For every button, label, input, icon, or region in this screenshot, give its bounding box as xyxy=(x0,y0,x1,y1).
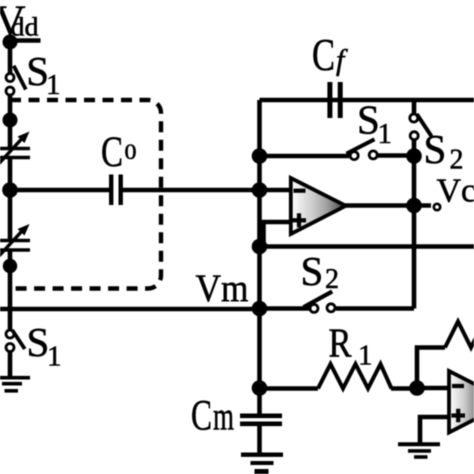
svg-text:2: 2 xyxy=(450,145,464,176)
wire Vm xyxy=(0,307,260,312)
resistor R2 (feedback) xyxy=(445,322,474,348)
label S2 (top-right) xyxy=(424,126,464,176)
wire Cf-left vertical xyxy=(257,100,262,156)
wire varcap1 to varcap2 xyxy=(8,159,13,239)
node dot (10,120) xyxy=(3,113,18,128)
label Cf xyxy=(312,30,348,80)
wire U2 minus input xyxy=(417,386,449,391)
node dot (417,388) xyxy=(409,380,425,396)
wire U1 plus input xyxy=(264,222,291,247)
svg-text:1: 1 xyxy=(47,341,62,373)
switch S2a xyxy=(410,114,432,140)
svg-text:2: 2 xyxy=(325,264,339,295)
label S2 (middle) xyxy=(301,248,340,295)
label R1 xyxy=(329,320,373,372)
capacitor Cm xyxy=(240,416,282,424)
variable capacitor (bottom) xyxy=(0,224,30,256)
variable capacitor (top) xyxy=(0,132,30,164)
wire S1a to node xyxy=(8,95,13,120)
wire S2a down through nodes to corner xyxy=(412,140,417,309)
wire Vdd to S1a xyxy=(8,42,13,73)
switch S2b xyxy=(304,292,336,313)
capacitor C0 xyxy=(111,175,121,206)
switch S1b xyxy=(6,330,25,352)
svg-text:S: S xyxy=(357,97,380,143)
svg-text:0: 0 xyxy=(125,139,137,164)
wire C0 right xyxy=(123,188,260,193)
label S1 (bottom-left) xyxy=(27,319,62,373)
resistor R1 xyxy=(318,364,392,389)
Vdd rail stub xyxy=(9,38,41,43)
wire S2b to corner xyxy=(336,306,414,311)
wire S1c to node xyxy=(377,153,414,158)
wire Cf to S2a stub xyxy=(412,100,417,114)
svg-text:C: C xyxy=(312,30,335,80)
node dot (414,205.5) xyxy=(406,198,422,214)
svg-text:S: S xyxy=(424,126,447,172)
node dot (258,388) xyxy=(252,380,268,396)
svg-text:R: R xyxy=(329,320,353,366)
svg-text:C: C xyxy=(191,393,212,440)
svg-text:1: 1 xyxy=(378,118,393,150)
svg-text:S: S xyxy=(301,248,324,294)
node dot (414,156) xyxy=(406,148,422,164)
wire node to S2b xyxy=(260,306,312,311)
node dot (10,190) xyxy=(2,182,18,198)
wire Cm to ground xyxy=(257,424,262,453)
svg-text:C: C xyxy=(101,129,123,176)
switch S1a xyxy=(6,66,26,95)
ground (Cm) xyxy=(241,455,283,472)
op-amp U2 xyxy=(449,371,474,433)
wire Cf top xyxy=(260,98,474,103)
ground (U2) xyxy=(398,444,440,457)
node dot (258,246.5) xyxy=(252,239,268,255)
svg-text:Vc: Vc xyxy=(437,173,474,210)
label S1 (top-right) xyxy=(357,97,392,151)
label S1 (top-left) xyxy=(26,48,60,101)
wire col2 vertical xyxy=(257,156,262,414)
wire S1b to ground xyxy=(8,352,13,378)
wire row F to right edge xyxy=(260,244,474,249)
node dot (10,266) xyxy=(3,259,17,273)
wire node to S1c xyxy=(260,154,350,159)
switch S1c xyxy=(347,139,378,159)
wire C0 left xyxy=(10,188,109,193)
ground (bottom-left) xyxy=(0,378,30,391)
terminal circle Vc xyxy=(434,204,440,210)
node Vdd dot xyxy=(3,35,18,50)
wire R1 to node xyxy=(391,386,417,391)
svg-text:m: m xyxy=(213,394,234,439)
node dot (258,308.5) xyxy=(252,301,268,317)
wire varcap2 down xyxy=(8,251,13,330)
capacitor Cf xyxy=(330,82,340,118)
svg-text:S: S xyxy=(27,319,50,365)
feedback wire up xyxy=(417,348,445,389)
svg-text:Vm: Vm xyxy=(196,267,249,310)
wire U1 minus input xyxy=(260,188,291,193)
svg-text:1: 1 xyxy=(46,69,61,101)
node dot (258,190) xyxy=(252,182,268,198)
node dot (258,156) xyxy=(252,148,268,164)
wire U2 plus input xyxy=(420,417,449,444)
op-amp U1 xyxy=(291,178,346,234)
wire node to varcap1 xyxy=(8,120,13,147)
svg-text:1: 1 xyxy=(358,340,373,372)
label Vdd xyxy=(0,0,39,45)
wire U1 output xyxy=(345,203,431,208)
label C0 xyxy=(101,129,137,176)
dashed box xyxy=(10,100,161,289)
wire R1 left xyxy=(260,386,319,391)
